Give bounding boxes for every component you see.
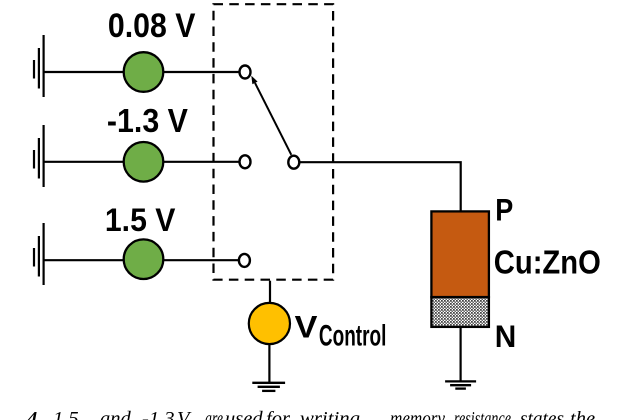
wire row3 right	[163, 259, 239, 261]
wire row2 right	[163, 161, 240, 163]
ground G1 (rotated, left of 0.08 V source)	[34, 35, 44, 97]
svg-text:are: are	[205, 408, 223, 420]
svg-text:used: used	[225, 408, 263, 420]
ground G2 (rotated, left of -1.3 V source)	[34, 125, 44, 187]
svg-text:for: for	[266, 408, 291, 420]
wire row3 left	[44, 259, 124, 261]
control voltage source (yellow)	[249, 303, 290, 344]
wire pole to device	[299, 162, 461, 212]
svg-text:V: V	[295, 309, 319, 345]
switch contact row1	[240, 66, 251, 79]
ground G4 (below memristor)	[445, 381, 476, 388]
wire box to control source	[269, 281, 271, 304]
wire device to ground	[460, 327, 462, 382]
wire control source to ground	[268, 344, 270, 382]
svg-text:memory: memory	[390, 408, 446, 420]
svg-text:Control: Control	[319, 321, 387, 353]
svg-text:writing: writing	[300, 408, 360, 420]
wire row1 left	[44, 71, 124, 73]
wire row2 left	[44, 161, 124, 163]
svg-text:and: and	[100, 408, 132, 420]
voltage source V3 1.5 V	[124, 239, 164, 279]
switch arm	[255, 83, 291, 155]
svg-text:N: N	[495, 318, 517, 354]
svg-text:the: the	[570, 408, 595, 420]
svg-text:resistance: resistance	[454, 408, 511, 420]
figure caption (cut off at bottom edge)	[26, 408, 595, 420]
switch contact row3	[239, 254, 250, 267]
svg-text:P: P	[495, 192, 513, 228]
voltage source V1 0.08 V	[124, 52, 164, 92]
switch pole contact	[288, 156, 299, 169]
svg-text:4.: 4.	[26, 408, 42, 420]
svg-text:Cu:ZnO: Cu:ZnO	[494, 244, 601, 281]
svg-text:states: states	[520, 408, 564, 420]
switch arm arrowhead	[251, 76, 257, 85]
svg-text:-1.3: -1.3	[142, 408, 174, 420]
dashed selector box	[214, 4, 334, 280]
memristor body Cu:ZnO (P layer)	[431, 211, 489, 297]
switch contact row2	[240, 155, 251, 168]
svg-text:-1.3 V: -1.3 V	[107, 103, 189, 140]
voltage source V2 -1.3 V	[124, 142, 164, 182]
svg-text:1.5 V: 1.5 V	[105, 202, 176, 238]
ground G3 (rotated, left of 1.5 V source)	[34, 223, 44, 285]
svg-text:0.08 V: 0.08 V	[108, 7, 196, 45]
ground G5 (below control source)	[252, 383, 285, 391]
wire row1 right	[163, 71, 240, 73]
memristor N layer (hatched)	[431, 297, 489, 327]
svg-text:1.5: 1.5	[53, 408, 79, 420]
